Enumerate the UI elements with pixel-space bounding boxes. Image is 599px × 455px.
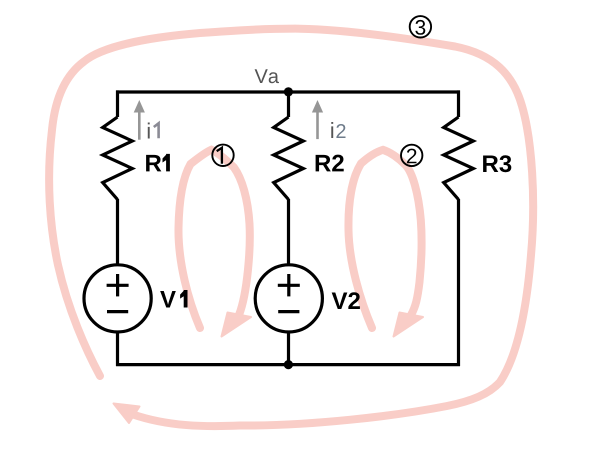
wire: left branch between R1 and V1 (116, 199, 119, 265)
current label i1 (148, 123, 150, 139)
value label R3 (483, 155, 498, 172)
loop 2 arrow (mesh current 2) (348, 150, 421, 328)
junction dot (bottom node) (284, 360, 293, 369)
wire: middle branch between R2 and V2 (287, 199, 290, 265)
loop 3 arrow (outer mesh current path) (49, 29, 533, 426)
current arrow i2 (312, 100, 323, 139)
value label R1 (146, 155, 161, 172)
resistor R3 (444, 117, 474, 200)
loop label 2 (circled 2) (401, 145, 422, 166)
wire: bottom rail from V1 to R3 (116, 363, 460, 366)
wire: middle branch top stub (287, 92, 290, 117)
loop 2 arrowhead (394, 313, 424, 337)
node label Va (255, 69, 268, 83)
wire: right branch below R3 (457, 199, 460, 366)
wire: middle branch below V2 (287, 331, 290, 365)
resistor R2 (274, 117, 304, 200)
value label V2 (332, 292, 348, 309)
wire: right branch top stub (457, 90, 460, 117)
value label R2 (316, 155, 331, 172)
loop label 1 (circled 1) (212, 145, 233, 166)
current label i2 (331, 122, 333, 138)
wire: left branch top stub (116, 90, 119, 117)
wire: left branch below V1 (116, 331, 119, 366)
loop 1 arrowhead (222, 313, 252, 337)
value label V1 (160, 291, 176, 308)
voltage source V2 (255, 265, 322, 332)
current arrow i1 (134, 100, 145, 140)
voltage source V1 (84, 265, 151, 332)
loop 3 arrowhead (114, 404, 140, 424)
wire: top rail from R1 to R3 (116, 90, 460, 93)
node Va junction dot (top) (284, 87, 293, 96)
resistor R1 (103, 117, 133, 200)
loop label 3 (circled 3) (410, 16, 431, 37)
loop 1 arrow (mesh current 1) (178, 150, 249, 328)
